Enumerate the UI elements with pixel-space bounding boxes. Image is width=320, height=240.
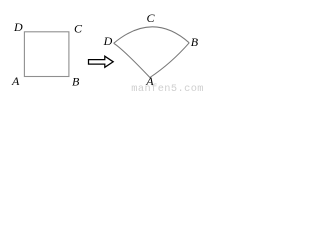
block arrow [89,56,114,67]
square ABCD [24,32,69,77]
svg-text:manfen5.com: manfen5.com [131,83,204,92]
fan sector sides (D to A to B) [114,43,190,78]
svg-text:C: C [147,11,156,25]
svg-text:A: A [11,74,20,88]
svg-text:D: D [103,34,113,48]
fan sector arc (D to B through C) [114,27,190,43]
svg-text:D: D [13,20,23,34]
svg-text:B: B [72,75,80,89]
svg-text:B: B [191,35,199,49]
svg-text:C: C [74,22,83,36]
